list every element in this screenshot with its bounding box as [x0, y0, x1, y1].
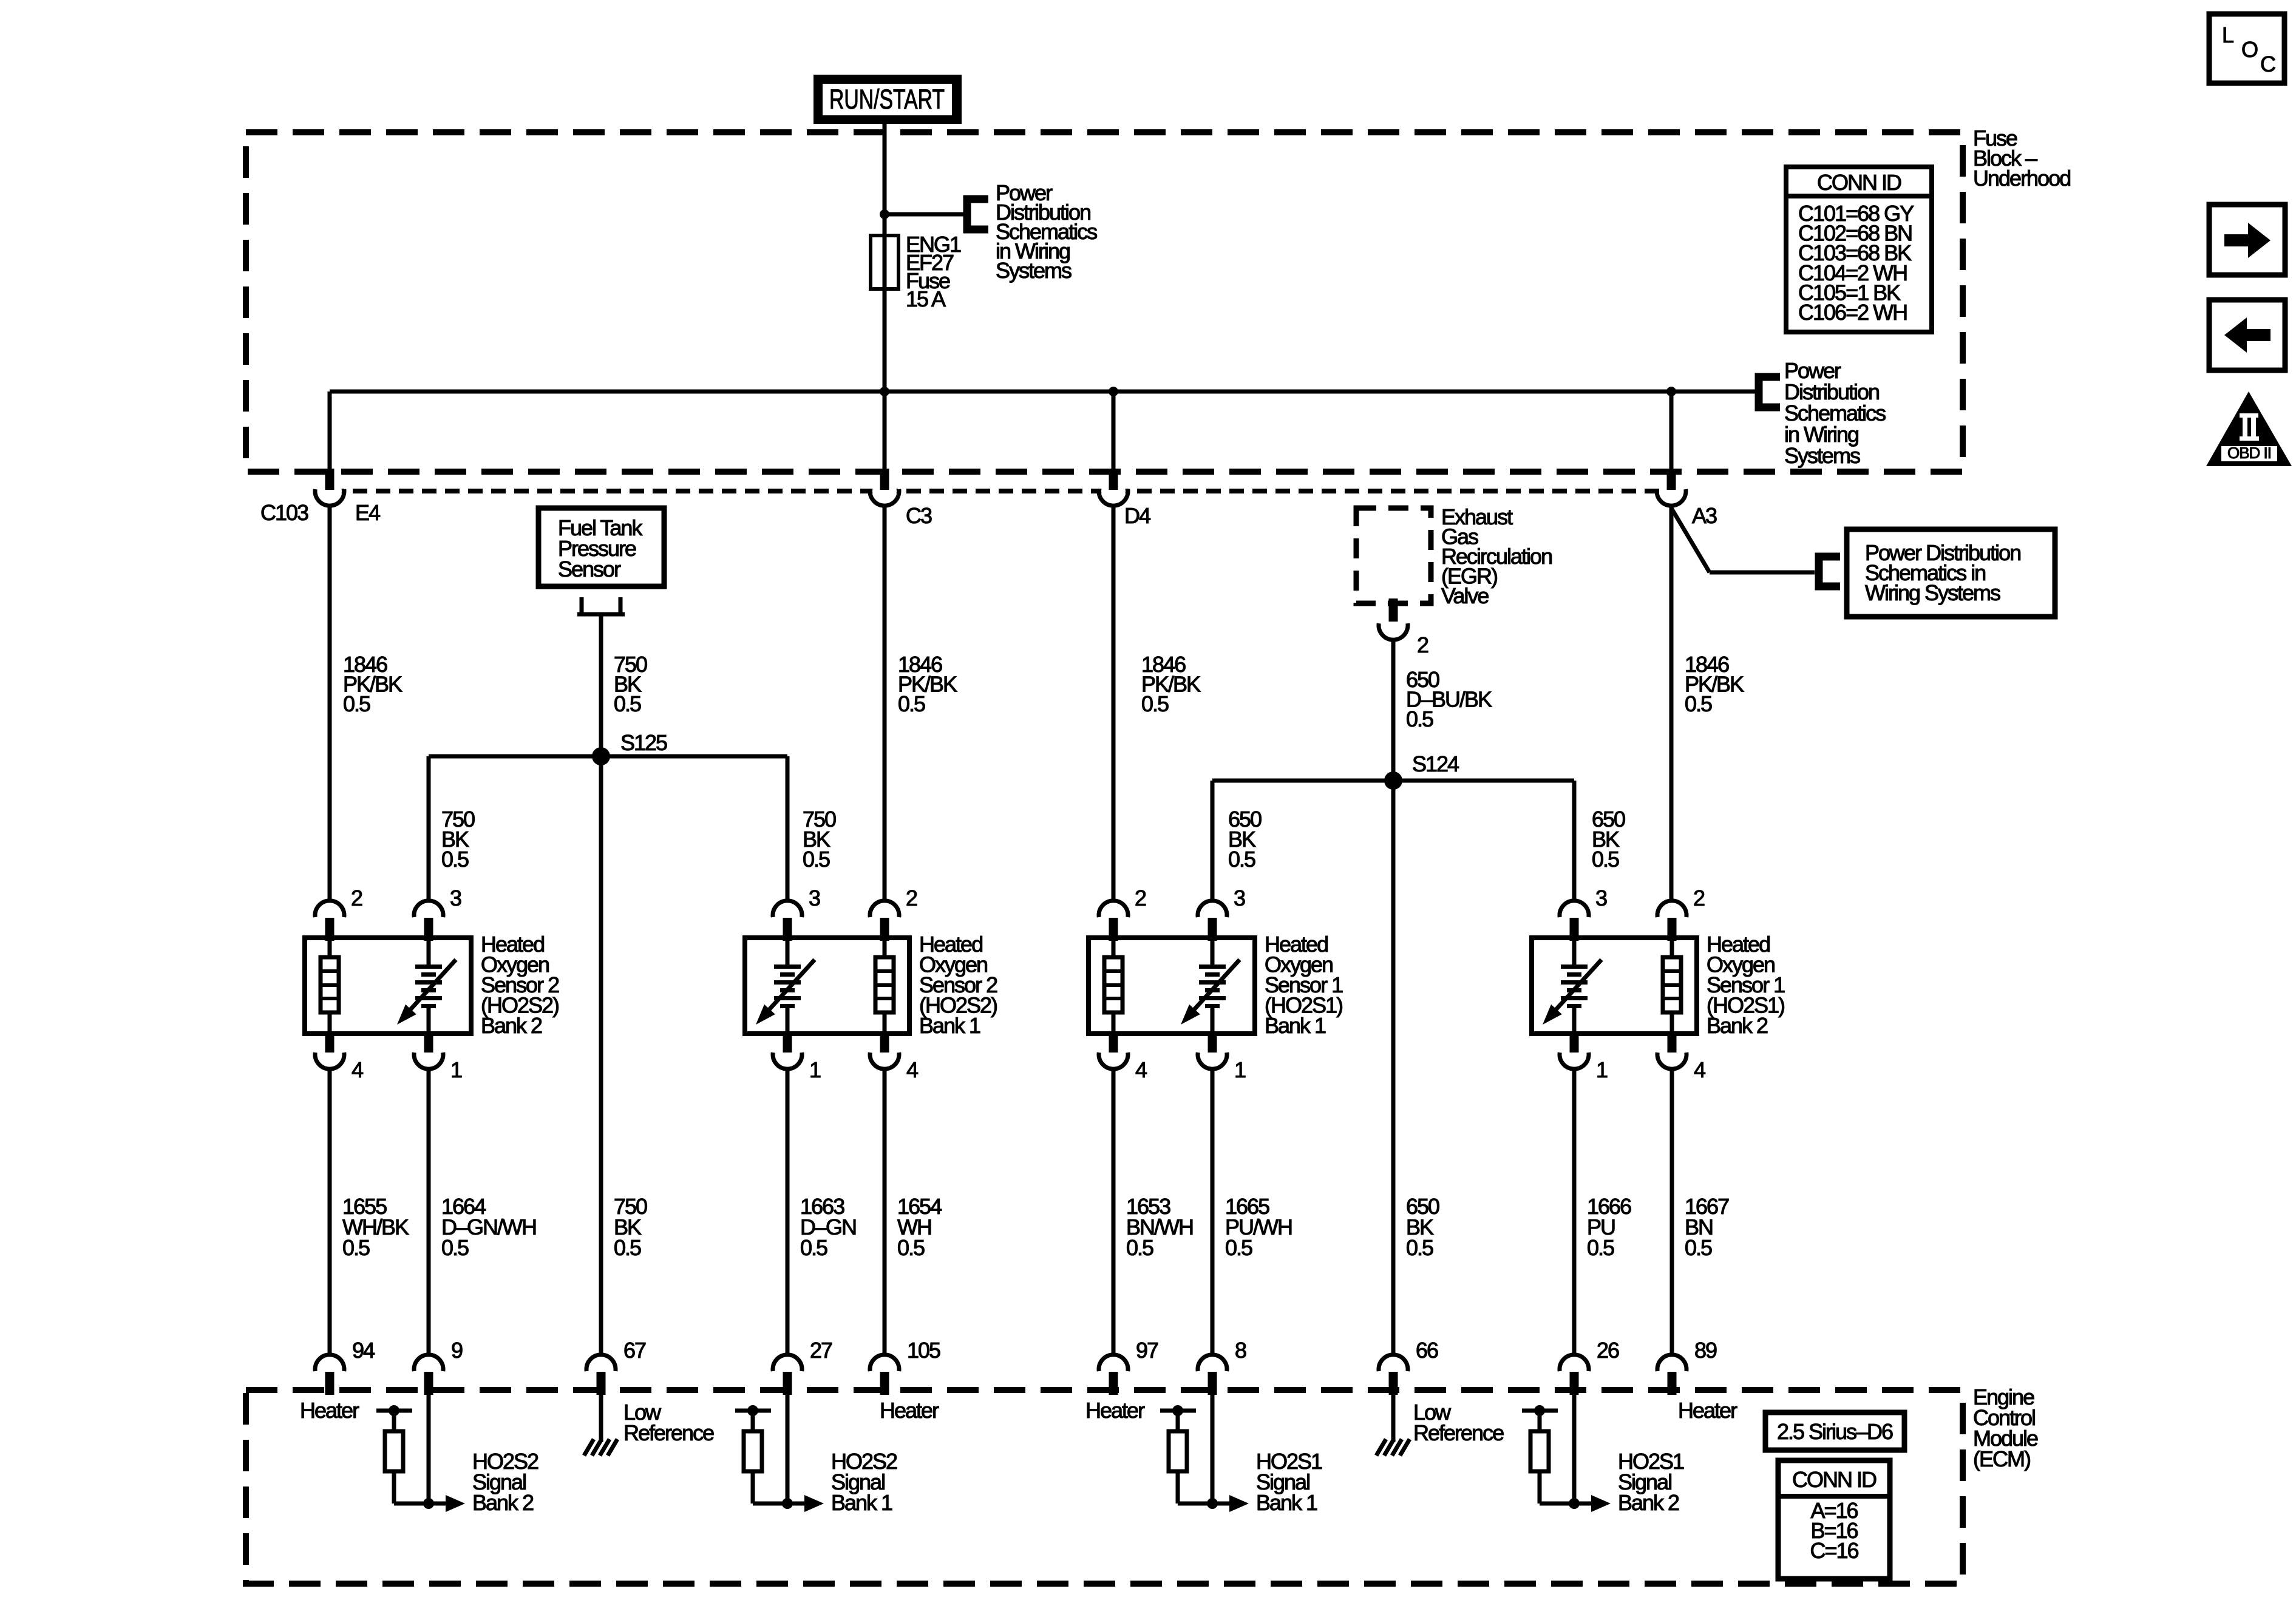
- wire S124 to HO2S1 bank2 pin3: [1572, 781, 1577, 900]
- ECM variant box 2.5 Sirius-D6: [1765, 1412, 1904, 1450]
- svg-text:3: 3: [809, 886, 820, 910]
- wire S124 to HO2S1 bank1 pin3: [1211, 781, 1215, 900]
- ECM heater label (pin 105): [880, 1398, 939, 1423]
- svg-text:Sensor: Sensor: [558, 557, 621, 581]
- wire connector A3 to sensor: [1669, 507, 1674, 900]
- wire splice S125 crossbar: [429, 754, 787, 759]
- svg-text:0.5: 0.5: [343, 691, 370, 716]
- svg-text:26: 26: [1597, 1338, 1619, 1363]
- label wire 750 BK 0.5 (right branch): [803, 807, 836, 872]
- label HO2S2 Signal Bank 2: [472, 1449, 538, 1515]
- ECM ground low reference (pin 67): [584, 1395, 617, 1456]
- label wire 650 D-BU/BK 0.5: [1406, 667, 1492, 731]
- ECM connector pin 94: [315, 1355, 344, 1395]
- svg-text:2.5 Sirius–D6: 2.5 Sirius–D6: [1777, 1419, 1893, 1444]
- svg-text:S124: S124: [1412, 751, 1459, 776]
- svg-text:CONN ID: CONN ID: [1817, 170, 1901, 195]
- EGR valve dashed box: [1356, 508, 1431, 603]
- label fuse ENG1 EF27 Fuse 15 A: [906, 232, 961, 311]
- label pin C3: [906, 503, 932, 528]
- svg-text:0.5: 0.5: [898, 691, 925, 716]
- connector C103 pin D4: [1099, 469, 1128, 506]
- svg-text:0.5: 0.5: [1685, 1235, 1712, 1260]
- svg-text:C106=2 WH: C106=2 WH: [1798, 300, 1907, 325]
- svg-text:Heater: Heater: [1085, 1398, 1145, 1423]
- svg-text:CONN ID: CONN ID: [1792, 1467, 1877, 1492]
- wire sensor to ECM pin 89: [1670, 1070, 1674, 1353]
- label C103: [260, 500, 308, 525]
- label ECM pin 97: [1136, 1338, 1158, 1363]
- label Fuse Block - Underhood: [1973, 126, 2070, 191]
- svg-text:Bank 2: Bank 2: [481, 1013, 542, 1038]
- svg-text:Bank 1: Bank 1: [1265, 1013, 1326, 1038]
- svg-text:67: 67: [623, 1338, 646, 1363]
- svg-text:Systems: Systems: [1784, 443, 1860, 468]
- wire to power distribution reference: [885, 212, 967, 217]
- ECM connector pin 26: [1560, 1355, 1589, 1395]
- label wire 1666 PU 0.5 (pin 26): [1587, 1194, 1631, 1260]
- wire EGR to ECM pin 66: [1391, 641, 1396, 1353]
- ECM connector pin 89: [1657, 1355, 1686, 1395]
- label ECM pin 89: [1694, 1338, 1717, 1363]
- junction dot at fuse feed: [880, 209, 889, 219]
- wire S125 to HO2S2 bank1 pin3: [786, 756, 790, 900]
- label wire 1654 WH 0.5 (pin 105): [897, 1194, 942, 1260]
- svg-text:Bank 2: Bank 2: [1618, 1490, 1679, 1515]
- svg-text:E4: E4: [355, 500, 380, 525]
- svg-text:Underhood: Underhood: [1973, 166, 2070, 191]
- label EGR pin 2: [1417, 632, 1428, 657]
- svg-text:0.5: 0.5: [1685, 691, 1712, 716]
- svg-text:Systems: Systems: [996, 258, 1072, 283]
- svg-text:0.5: 0.5: [1126, 1235, 1153, 1260]
- label ECM pin 66: [1416, 1338, 1438, 1363]
- ECM connector pin 27: [773, 1355, 802, 1395]
- label wire 750 BK 0.5 (pin 67): [614, 1194, 647, 1260]
- svg-text:1: 1: [1596, 1057, 1608, 1082]
- svg-text:4: 4: [1135, 1057, 1147, 1082]
- svg-text:1: 1: [1234, 1057, 1246, 1082]
- label HO2S1 Signal Bank 2: [1618, 1449, 1684, 1515]
- svg-text:Bank 1: Bank 1: [919, 1013, 980, 1038]
- svg-text:OBD II: OBD II: [2227, 444, 2271, 462]
- svg-text:Wiring Systems: Wiring Systems: [1865, 580, 2000, 605]
- svg-text:0.5: 0.5: [1225, 1235, 1252, 1260]
- ECM pull-up resistor and HO2S2 bank2 signal (pin 9): [376, 1395, 465, 1512]
- label ECM pin 9: [451, 1338, 463, 1363]
- label wire 1846 PK/BK 0.5 (D4): [1141, 652, 1201, 716]
- icon OBD II triangle: [2206, 392, 2292, 466]
- junction dot bus at D4: [1109, 387, 1118, 396]
- svg-text:0.5: 0.5: [800, 1235, 827, 1260]
- label pin A3: [1692, 503, 1717, 528]
- label wire 1667 BN 0.5 (pin 89): [1685, 1194, 1729, 1260]
- CONN ID table (ECM): [1778, 1460, 1890, 1579]
- label Low Reference (pin 67): [623, 1400, 714, 1445]
- svg-text:S125: S125: [620, 730, 667, 755]
- ECM pull-up resistor and HO2S1 bank1 signal (pin 8): [1160, 1395, 1249, 1512]
- fuse ENG1 EF27 15A: [871, 236, 898, 289]
- svg-text:2: 2: [1417, 632, 1428, 657]
- fuse block underhood dashed outline: [246, 132, 1963, 472]
- label ECM pin 8: [1235, 1338, 1246, 1363]
- label wire 1846 PK/BK 0.5 (C3): [898, 652, 957, 716]
- connector C103 pin A3: [1657, 469, 1686, 506]
- splice S125 dot: [592, 747, 610, 765]
- ECM connector pin 67: [586, 1355, 616, 1395]
- svg-text:0.5: 0.5: [1406, 707, 1433, 731]
- ECM heater label (pin 97): [1085, 1398, 1145, 1423]
- fuel tank pressure sensor box: [538, 508, 664, 586]
- wire sensor to ECM pin 26: [1572, 1070, 1577, 1353]
- svg-text:0.5: 0.5: [1228, 847, 1255, 872]
- svg-text:4: 4: [352, 1057, 363, 1082]
- svg-text:2: 2: [906, 886, 917, 910]
- power distribution schematics box (A3): [1847, 529, 2055, 617]
- svg-text:0.5: 0.5: [897, 1235, 925, 1260]
- svg-text:66: 66: [1416, 1338, 1438, 1363]
- label wire 1663 D–GN 0.5 (pin 27): [800, 1194, 856, 1260]
- junction dot bus at C3: [880, 387, 889, 396]
- label wire 1846 PK/BK 0.5 (A3): [1685, 652, 1744, 716]
- svg-text:105: 105: [907, 1338, 940, 1363]
- svg-text:0.5: 0.5: [342, 1235, 370, 1260]
- svg-text:(ECM): (ECM): [1973, 1446, 2030, 1471]
- icon arrow next page: [2209, 205, 2285, 275]
- heated oxygen sensor 2 bank 2 (HO2S2): [305, 886, 559, 1082]
- label HO2S2 Signal Bank 1: [831, 1449, 897, 1515]
- junction dot bus at A3: [1666, 387, 1676, 396]
- svg-text:Heater: Heater: [880, 1398, 939, 1423]
- heated oxygen sensor 1 bank 2 (HO2S1): [1532, 886, 1785, 1082]
- bracket power distribution reference (right): [1755, 373, 1781, 412]
- svg-text:89: 89: [1694, 1338, 1717, 1363]
- svg-text:C=16: C=16: [1810, 1538, 1858, 1563]
- svg-text:0.5: 0.5: [614, 1235, 641, 1260]
- label ECM pin 26: [1597, 1338, 1619, 1363]
- svg-text:A3: A3: [1692, 503, 1717, 528]
- wire bus to bracket right: [1671, 390, 1759, 394]
- wire bus to connector E4: [328, 392, 332, 470]
- svg-text:Bank 2: Bank 2: [472, 1490, 534, 1515]
- wire bus to connector D4: [1112, 392, 1116, 470]
- svg-text:Bank 2: Bank 2: [1707, 1013, 1768, 1038]
- label ECM pin 105: [907, 1338, 940, 1363]
- svg-text:3: 3: [1234, 886, 1245, 910]
- wire sensor to ECM pin 105: [883, 1070, 887, 1353]
- svg-text:0.5: 0.5: [1406, 1235, 1433, 1260]
- svg-text:97: 97: [1136, 1338, 1158, 1363]
- svg-text:0.5: 0.5: [614, 691, 641, 716]
- label wire 750 BK 0.5 (left branch): [441, 807, 475, 872]
- label ECM pin 27: [810, 1338, 832, 1363]
- svg-text:0.5: 0.5: [1587, 1235, 1614, 1260]
- icon LOC box: [2209, 14, 2284, 83]
- wire sensor to ECM pin 27: [786, 1070, 790, 1353]
- label wire 1664 D–GN/WH 0.5 (pin 9): [441, 1194, 536, 1260]
- ECM connector pin 8: [1198, 1355, 1227, 1395]
- connector C103 pin C3: [870, 469, 899, 506]
- ECM connector pin 97: [1099, 1355, 1128, 1395]
- wire fuse to bus: [0, 0, 1, 1]
- CONN ID table (fuse block): [1786, 167, 1932, 332]
- svg-text:15 A: 15 A: [906, 286, 946, 311]
- svg-text:0.5: 0.5: [441, 847, 469, 872]
- bus wire (fuse output): [330, 390, 1671, 394]
- label Power Distribution Schematics in Wiring Systems (top): [996, 180, 1097, 283]
- svg-text:Heater: Heater: [300, 1398, 359, 1423]
- label wire 1665 PU/WH 0.5 (pin 8): [1225, 1194, 1292, 1260]
- ECM ground low reference (pin 66): [1376, 1395, 1410, 1456]
- svg-text:O: O: [2241, 37, 2258, 62]
- svg-text:Reference: Reference: [1413, 1420, 1504, 1445]
- svg-text:Heater: Heater: [1678, 1398, 1737, 1423]
- svg-text:Bank 1: Bank 1: [831, 1490, 892, 1515]
- label Low Reference (pin 66): [1413, 1400, 1504, 1445]
- svg-text:C3: C3: [906, 503, 932, 528]
- splice S124 dot: [1384, 771, 1402, 790]
- svg-text:RUN/START: RUN/START: [829, 84, 945, 115]
- svg-text:94: 94: [352, 1338, 375, 1363]
- wire sensor to ECM pin 97: [1112, 1070, 1116, 1353]
- svg-text:1: 1: [809, 1057, 821, 1082]
- label Power Distribution Schematics in Wiring Systems (right): [1784, 358, 1886, 468]
- wire connector to sensor x=543: [328, 507, 332, 900]
- wire RUN/START to fuse: [883, 124, 887, 392]
- label S125: [620, 730, 667, 755]
- ECM pull-up resistor and HO2S1 bank2 signal (pin 26): [1522, 1395, 1611, 1512]
- svg-text:0.5: 0.5: [441, 1235, 469, 1260]
- label wire 650 BK 0.5 (right branch): [1592, 807, 1625, 872]
- wire connector to sensor x=1834: [1112, 507, 1116, 900]
- icon arrow previous page: [2209, 300, 2285, 370]
- label wire 1653 BN/WH 0.5 (pin 97): [1126, 1194, 1193, 1260]
- wire FTPS to ECM pin 67: [599, 616, 603, 1353]
- svg-text:0.5: 0.5: [803, 847, 830, 872]
- ECM connector pin 105: [870, 1355, 899, 1395]
- svg-text:C: C: [2260, 52, 2275, 76]
- wire sensor to ECM pin 8: [1211, 1070, 1215, 1353]
- wire bus to connector A3: [1669, 392, 1674, 470]
- wire sensor to ECM pin 9: [427, 1070, 431, 1353]
- bracket power distribution reference: [963, 195, 989, 234]
- ECM heater label (pin 94): [300, 1398, 359, 1423]
- ECM connector pin 66: [1379, 1355, 1408, 1395]
- label HO2S1 Signal Bank 1: [1256, 1449, 1322, 1515]
- svg-text:2: 2: [1135, 886, 1146, 910]
- power feed box RUN/START: [813, 75, 962, 124]
- svg-text:9: 9: [451, 1338, 463, 1363]
- svg-text:4: 4: [906, 1057, 918, 1082]
- svg-text:C103: C103: [260, 500, 308, 525]
- label wire 650 BK 0.5 (pin 66): [1406, 1194, 1439, 1260]
- wire splice S124 crossbar: [1212, 779, 1574, 783]
- connector C103 pin E4: [315, 469, 344, 506]
- svg-text:2: 2: [1693, 886, 1705, 910]
- svg-text:Valve: Valve: [1441, 583, 1489, 608]
- wire connector to sensor x=1457: [883, 507, 887, 900]
- wire sensor to ECM pin 94: [328, 1070, 332, 1353]
- engine control module dashed outline: [246, 1390, 1963, 1584]
- svg-text:1: 1: [450, 1057, 462, 1082]
- label wire 650 BK 0.5 (left branch): [1228, 807, 1262, 872]
- ECM connector pin 9: [414, 1355, 443, 1395]
- EGR connector pin 2: [1379, 598, 1408, 640]
- wire A3 to power distribution box (diagonal): [1671, 508, 1815, 572]
- label Engine Control Module (ECM): [1973, 1385, 2038, 1471]
- label pin E4: [355, 500, 380, 525]
- wire S125 to HO2S2 bank2 pin3: [427, 756, 431, 900]
- fuel tank pressure sensor connector: [577, 597, 625, 616]
- label S124: [1412, 751, 1459, 776]
- svg-text:D4: D4: [1124, 503, 1150, 528]
- wire bus to connector C3: [883, 392, 887, 470]
- bracket power distribution (A3): [1815, 553, 1841, 591]
- label wire 1655 WH/BK 0.5 (pin 94): [342, 1194, 409, 1260]
- svg-text:3: 3: [450, 886, 461, 910]
- svg-text:0.5: 0.5: [1141, 691, 1169, 716]
- label Exhaust Gas Recirculation (EGR) Valve: [1441, 504, 1552, 608]
- connector line C103 (dotted): [330, 489, 1671, 493]
- svg-text:27: 27: [810, 1338, 832, 1363]
- label wire 1846 PK/BK 0.5 (E4): [343, 652, 402, 716]
- label pin D4: [1124, 503, 1150, 528]
- svg-text:8: 8: [1235, 1338, 1246, 1363]
- ECM heater label (pin 89): [1678, 1398, 1737, 1423]
- label ECM pin 67: [623, 1338, 646, 1363]
- ECM pull-up resistor and HO2S2 bank1 signal (pin 27): [735, 1395, 824, 1512]
- svg-text:Bank 1: Bank 1: [1256, 1490, 1317, 1515]
- label wire 750 BK 0.5 (FTPS): [614, 652, 647, 716]
- svg-text:L: L: [2222, 22, 2233, 47]
- svg-text:2: 2: [351, 886, 362, 910]
- svg-text:0.5: 0.5: [1592, 847, 1619, 872]
- heated oxygen sensor 1 bank 1 (HO2S1): [1089, 886, 1343, 1082]
- heated oxygen sensor 2 bank 1 (HO2S2): [745, 886, 997, 1082]
- svg-text:3: 3: [1595, 886, 1607, 910]
- svg-text:Reference: Reference: [623, 1420, 714, 1445]
- svg-text:4: 4: [1694, 1057, 1705, 1082]
- label ECM pin 94: [352, 1338, 375, 1363]
